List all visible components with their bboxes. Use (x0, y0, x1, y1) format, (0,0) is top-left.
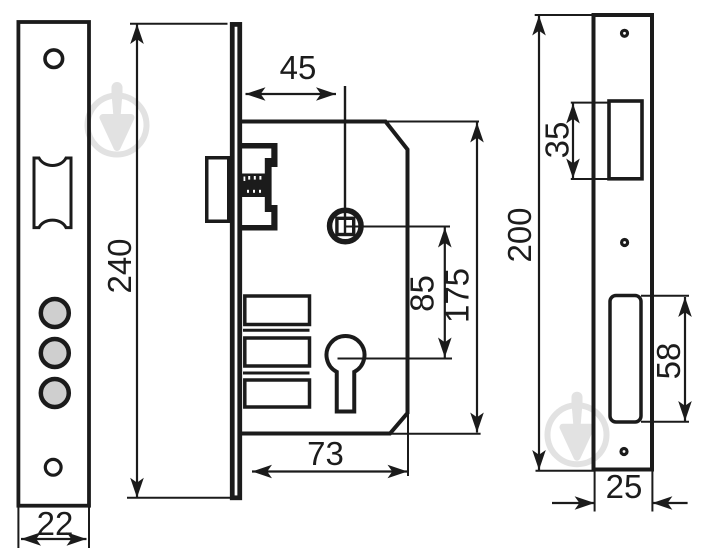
svg-text:175: 175 (439, 268, 476, 323)
svg-text:45: 45 (280, 49, 317, 86)
svg-text:240: 240 (101, 238, 138, 293)
svg-text:35: 35 (539, 122, 576, 159)
svg-text:58: 58 (650, 343, 687, 380)
svg-text:22: 22 (37, 505, 74, 542)
svg-text:85: 85 (404, 275, 441, 312)
svg-text:200: 200 (501, 207, 538, 262)
svg-text:25: 25 (606, 468, 643, 505)
svg-text:73: 73 (307, 435, 344, 472)
